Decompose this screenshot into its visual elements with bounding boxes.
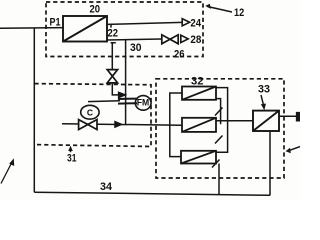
wire: retentate line 22: [107, 39, 162, 40]
orifice plate bars (flow meter): [118, 99, 137, 104]
heat exchanger C: [181, 151, 216, 164]
svg-text:12: 12: [234, 7, 244, 19]
heat exchanger B: [182, 118, 216, 132]
svg-text:P1: P1: [50, 17, 61, 29]
svg-text:32: 32: [191, 75, 204, 87]
svg-text:FM: FM: [137, 98, 150, 108]
unit 33: [253, 111, 279, 131]
wire: feed line from left edge: [0, 27, 64, 30]
wire: main line to unit 33: [216, 120, 253, 122]
arrow for label 31: [70, 148, 72, 152]
slash mark m3: [212, 160, 220, 168]
svg-text:31: 31: [67, 153, 77, 165]
dashed box 12: [46, 2, 203, 57]
compressor C: [81, 105, 99, 119]
membrane unit 20: [63, 16, 107, 42]
valve 30 (vertical bowtie): [107, 70, 117, 83]
tick and wire: branch 30 drop: [111, 43, 116, 70]
svg-text:30: 30: [130, 42, 142, 54]
wire: permeate line to arrow 24: [107, 22, 182, 24]
arrow 28: [181, 35, 188, 42]
right link A-bottom to main via V1: [216, 99, 221, 125]
svg-text:28: 28: [190, 34, 201, 46]
svg-text:C: C: [87, 107, 93, 117]
arrow 24: [182, 19, 189, 26]
heat exchanger A: [182, 87, 216, 100]
wire: outlet line from 33: [279, 115, 297, 117]
flow meter FM: [135, 96, 151, 111]
dashed box 31: [35, 84, 152, 147]
wire: left vertical bus: [33, 28, 35, 192]
wire: vertical drop from line 22 to mixer node: [125, 39, 127, 125]
outlet bar at right edge: [297, 112, 300, 121]
wire: unit 33 drain to bottom line: [269, 131, 271, 195]
leader arrow bottom-left: [1, 163, 12, 184]
svg-text:24: 24: [190, 17, 201, 29]
wire: air line through valve to HX stack: [62, 124, 182, 125]
valve 28 (bowtie): [162, 35, 178, 44]
svg-text:20: 20: [90, 3, 101, 15]
svg-text:33: 33: [258, 83, 270, 95]
left bracket of HX stack: [170, 93, 182, 157]
slash mark m2: [215, 136, 223, 144]
flow arrowhead into node: [119, 92, 126, 97]
flow arrowhead on air line: [115, 122, 122, 128]
wire: HX C drain to bottom line: [218, 164, 220, 196]
svg-text:22: 22: [108, 28, 119, 40]
right link A-top to C via V2: [216, 88, 228, 153]
svg-text:26: 26: [174, 48, 185, 60]
leader line for label 12: [208, 7, 233, 13]
valve (air, bowtie): [79, 120, 97, 130]
dashed box 32: [156, 79, 284, 178]
wire: compressor discharge line: [88, 100, 120, 103]
tick for label 22: [110, 24, 112, 27]
wire: bottom line 34: [34, 192, 270, 195]
slash mark m1: [215, 108, 223, 116]
arrow from label 33: [261, 95, 264, 106]
leader arrow right edge: [289, 147, 300, 151]
wire: below valve 30 then turn right: [112, 83, 119, 95]
svg-text:34: 34: [100, 181, 113, 193]
